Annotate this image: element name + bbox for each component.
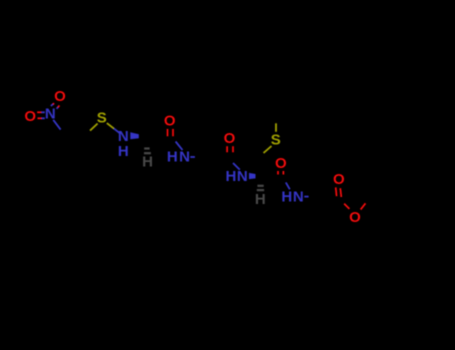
svg-text:O: O [224,130,236,147]
bond S2-CH3 (yellow half, vertical) [275,123,277,132]
svg-text:H: H [118,143,129,160]
double bond C1=O1 line2 (red half) [172,129,174,136]
bond C1-N3 (blue half) [176,142,183,151]
bond O5 to benzyl CH2 (red half) [361,203,366,209]
wedge bond N2 to alpha carbon 1 (blue half, apex toward C) [130,132,139,139]
bond N1 to ring carbon (blue half) [53,120,60,130]
hashed H on alpha carbon 1: dash 2 [144,152,151,154]
double bond C2=O2 line1 (red half) [226,146,228,152]
double bond C3=O3 line2 (red half) [282,171,284,175]
double bond O_left=N1 line2 blue half [42,117,45,119]
bond C2-N4 (blue half) [233,163,240,170]
wedge bond N4 to alpha carbon 2 (blue half) [249,173,256,179]
bond C3-N5 (blue half) [286,182,290,189]
hashed H on alpha carbon 1: dash 1 [144,147,149,149]
bond S1 to ring carbon (yellow half) [90,124,98,131]
double bond C3=O3 line1 (red half) [277,171,279,175]
double bond O_left=N1 line2 red half [38,117,42,119]
svg-text:O: O [349,209,361,226]
svg-text:H: H [142,153,153,170]
bond N5 to glycine CH2 (blue half) [304,196,308,198]
bond S1-N2 blue half [114,129,121,134]
double bond N1=O_top lineB blue half [57,107,59,109]
double bond C1=O1 line1 (red half) [167,129,169,136]
svg-text:O: O [54,88,66,105]
svg-text:S: S [271,131,281,148]
svg-text:H: H [167,149,178,166]
double bond C4=O4 line2 (red half) [340,188,341,197]
svg-text:H: H [255,191,266,208]
bond N3 to glycine CH2 (blue half) [190,156,195,158]
svg-text:H: H [225,168,236,185]
double bond N1=O_top lineB red half [58,105,59,107]
double bond N1=O_top lineA blue half [51,104,53,106]
svg-text:N: N [237,168,248,185]
double bond C2=O2 line2 (red half) [232,146,234,152]
svg-text:N: N [179,149,190,166]
hashed H on alpha carbon 2: dash 2 [257,189,264,191]
double bond O_left=N1 line1 red half [37,111,41,113]
svg-text:S: S [97,109,107,126]
bond C4-O5 (red half) [344,204,349,209]
double bond O_left=N1 line1 blue half [41,111,45,113]
double bond C4=O4 line1 (red half) [335,187,338,196]
svg-text:O: O [164,113,176,130]
double bond N1=O_top lineA red half [53,103,54,104]
bond S1-N2 yellow half [107,123,114,129]
svg-text:O: O [275,155,287,172]
hashed H on alpha carbon 2: dash 1 [257,185,263,187]
svg-text:O: O [24,108,36,125]
svg-text:H: H [281,189,292,206]
svg-text:O: O [333,171,345,188]
svg-text:N: N [293,189,304,206]
side-chain bond CH2-S2 (yellow half) [264,146,272,153]
